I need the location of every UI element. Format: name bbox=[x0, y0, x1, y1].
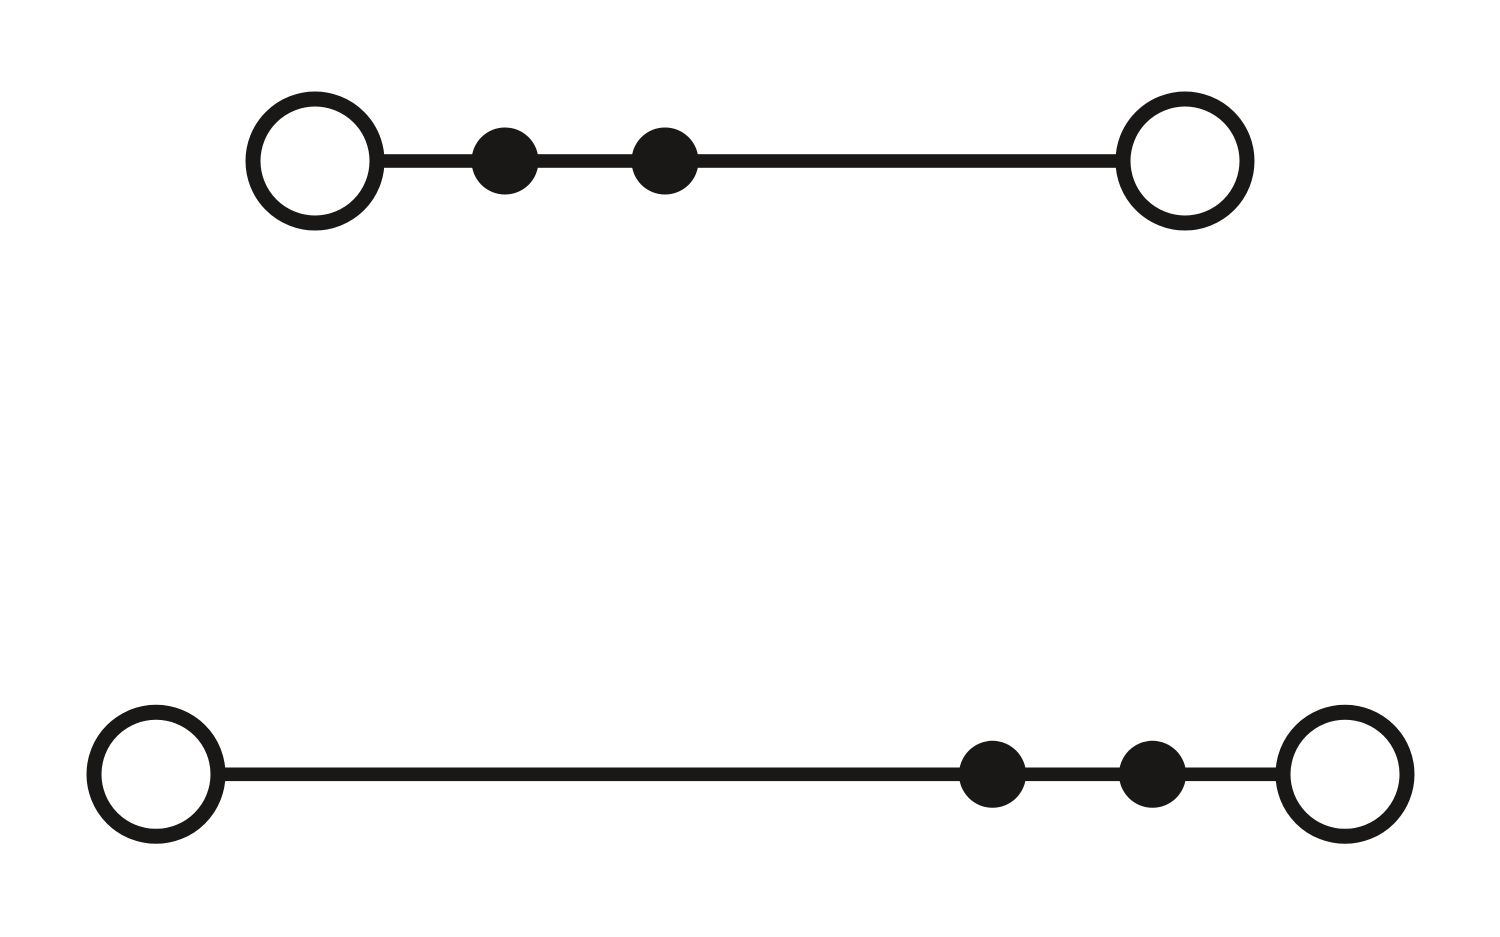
junction dot B2 (top bridge contact, right) bbox=[632, 128, 699, 195]
terminal circle 1.2 (top right connection point) bbox=[1123, 99, 1247, 223]
terminal circle 2.2 (bottom right connection point) bbox=[1283, 712, 1407, 836]
junction dot B4 (bottom bridge contact, right) bbox=[1119, 741, 1186, 808]
terminal circle 1.1 (top left connection point) bbox=[253, 99, 377, 223]
terminal circle 2.1 (bottom left connection point) bbox=[94, 712, 218, 836]
wire (top level conductor rail) bbox=[380, 154, 1120, 168]
junction dot B3 (bottom bridge contact, left) bbox=[959, 741, 1026, 808]
wire (bottom level conductor rail) bbox=[220, 768, 1281, 782]
junction dot B1 (top bridge contact, left) bbox=[472, 128, 539, 195]
